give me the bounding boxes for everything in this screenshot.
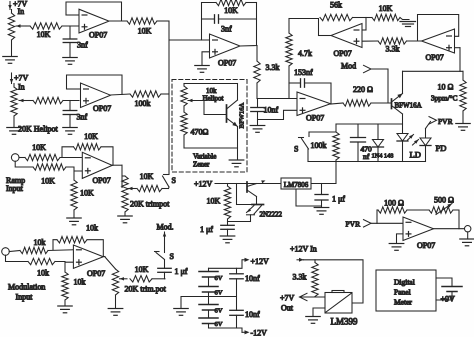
resistor 100 ohm (U9 feedback) [376, 210, 378, 223]
svg-text:OP07: OP07 [426, 53, 444, 62]
wire: U2 output [111, 94, 131, 95]
wire: minus input stage1 [66, 14, 79, 16]
switch S (bus to trimpot) [164, 174, 169, 176]
op-amp U9 OP07 (meter) [403, 217, 434, 241]
svg-text:3.3k: 3.3k [386, 45, 400, 54]
wire: input to resistors [19, 157, 25, 159]
svg-text:20K trim.pot: 20K trim.pot [125, 285, 167, 294]
wire: U9 output to terminal [434, 228, 465, 230]
wire: Q2 emitter up to rail [402, 71, 404, 93]
node: Modulation Input terminal [2, 248, 10, 256]
svg-text:Zener: Zener [193, 161, 210, 169]
wire: +12V to LM399 [304, 260, 364, 303]
svg-text:10k: 10k [34, 238, 46, 247]
svg-text:10K: 10K [80, 189, 94, 198]
resistor 10 ohm 3ppm/C [462, 71, 464, 80]
op-amp U4 OP07 [297, 92, 331, 116]
svg-text:Digital: Digital [394, 278, 415, 287]
trimmer 500 ohm (U9 feedback) [407, 209, 429, 211]
svg-text:10 Ω: 10 Ω [438, 83, 454, 92]
wire: feedback verticals U4 [288, 83, 290, 99]
svg-text:10K: 10K [37, 30, 51, 39]
wire: U4 output [331, 103, 344, 104]
ground (zener box) [229, 159, 244, 161]
svg-text:10K: 10K [379, 4, 393, 13]
op-amp U7 OP07 (ramp) [82, 152, 112, 178]
node: +7V In (stage2) [11, 73, 13, 84]
diode 1N4148 [377, 124, 379, 140]
svg-text:470Ω: 470Ω [191, 128, 209, 137]
svg-text:10K: 10K [41, 177, 55, 186]
trimpot 20K (ramp) [122, 176, 128, 212]
resistor 3.3k (U5 plus input) [362, 40, 378, 42]
resistor 220 ohm [343, 100, 371, 106]
svg-text:Input: Input [16, 293, 34, 302]
potentiometer 10k Helipot (in box) [183, 84, 185, 87]
wire: U5 output to feedback node [319, 35, 332, 37]
svg-text:100 Ω: 100 Ω [384, 199, 404, 208]
laser diode LD [402, 124, 404, 134]
resistor 100k (stage2 output) [130, 91, 161, 97]
svg-text:S: S [172, 176, 176, 185]
capacitor 1uf (mod, series) [164, 272, 166, 279]
wire: LM399 ground pin [313, 308, 325, 316]
op-amp U8 OP07 (modulation) [73, 245, 103, 268]
resistor 10K (ramp trim) [137, 185, 162, 191]
svg-text:153nf: 153nf [294, 68, 313, 77]
ground (1uf) [220, 235, 235, 237]
wire: Q1 collector up [237, 84, 239, 101]
svg-text:BFW16A: BFW16A [395, 102, 422, 110]
ground (10 ohm) [456, 123, 470, 125]
svg-text:Input: Input [6, 184, 24, 193]
svg-text:PD: PD [436, 143, 447, 153]
battery stack 4x6V [208, 268, 210, 271]
wire: battery bottom to -12V [209, 328, 243, 332]
ground (10nf) [250, 125, 265, 127]
svg-text:LM7806: LM7806 [284, 181, 309, 189]
svg-text:10k: 10k [37, 269, 49, 278]
svg-text:10k: 10k [86, 224, 98, 233]
svg-text:+9V: +9V [441, 295, 456, 304]
svg-text:10nf: 10nf [245, 274, 260, 283]
svg-text:Helipot: Helipot [203, 95, 224, 103]
wire: to bus [161, 93, 169, 95]
wire: top diode bus [336, 123, 403, 125]
battery +9V [436, 278, 452, 287]
dashed box: Variable Zener [172, 80, 247, 173]
svg-text:1 μf: 1 μf [200, 225, 213, 234]
svg-text:6V: 6V [215, 308, 223, 315]
ground (LM7806) [314, 207, 329, 209]
svg-text:10k: 10k [74, 278, 86, 287]
wire: wiper to resistor stage2 [29, 100, 33, 102]
wire: switch to 10K [168, 187, 171, 189]
ground (U8 plus) [58, 305, 72, 307]
svg-text:3.3k: 3.3k [266, 63, 280, 72]
wire: bottom diode bus [308, 161, 426, 163]
svg-text:6V: 6V [215, 321, 223, 328]
svg-text:10K: 10K [224, 6, 238, 15]
svg-text:10K: 10K [135, 265, 149, 274]
wire: U9 plus to ground [397, 234, 404, 244]
wire: U3 plus to ground [202, 52, 210, 65]
svg-text:3nf: 3nf [77, 113, 88, 122]
svg-text:500 Ω: 500 Ω [434, 196, 454, 205]
resistor 10K (stage1 output) [127, 18, 157, 24]
svg-text:LD: LD [410, 150, 421, 160]
wire: bus to U3 minus [169, 39, 210, 41]
wire: zener box top rail [184, 83, 238, 85]
node: +7V Out [300, 293, 308, 300]
wire: to U9 minus [371, 222, 403, 224]
node: output terminal [465, 226, 471, 232]
switch S (100k shunt) [335, 124, 337, 132]
op-amp U3 OP07 [210, 34, 241, 58]
op-amp U6 OP07 (points left) [422, 29, 455, 53]
resistor 4.7k (vertical, from opamp A output) [288, 19, 290, 34]
wire: U6 feedback loop [418, 15, 459, 42]
resistor 10K (U7 plus to ground) [73, 171, 75, 180]
svg-text:OP07: OP07 [93, 176, 111, 185]
capacitor 3nf (U3 feedback) [202, 18, 215, 20]
svg-text:20K Helipot: 20K Helipot [18, 125, 59, 134]
svg-text:BFW16A: BFW16A [239, 102, 246, 128]
wire: main vertical bus [168, 21, 170, 175]
svg-text:6V: 6V [215, 290, 223, 297]
capacitor 10nf (minus rail) [230, 309, 243, 311]
wire: bus to Q4 base [236, 184, 238, 205]
trimpot 20K (mod) [112, 269, 118, 295]
wire: stage2 feedback loop [67, 75, 123, 95]
ground (U9 plus) [389, 243, 404, 245]
svg-text:10K: 10K [138, 27, 152, 36]
svg-text:LM399: LM399 [331, 317, 359, 327]
svg-text:+12V In: +12V In [290, 245, 317, 254]
resistor 10K (mod trim out) [130, 276, 152, 282]
wire: 56k to minus junction [353, 17, 367, 19]
resistor 10K (ramp in 2) [33, 164, 66, 170]
svg-text:3nf: 3nf [221, 25, 232, 34]
resistor 10k (U8 plus to ground) [64, 262, 66, 272]
resistor 10K (ramp in 1) [25, 154, 60, 160]
wire: U3 output [240, 45, 257, 48]
ground (stage2 cap) [63, 127, 77, 129]
svg-text:PVR: PVR [438, 117, 453, 126]
svg-text:OP07: OP07 [87, 269, 105, 278]
ground (output terminal) [467, 232, 469, 239]
op-amp U5 OP07 (points left) [331, 24, 362, 48]
ground (LM399) [306, 316, 320, 318]
svg-text:Mod.: Mod. [157, 223, 174, 232]
ground (stage2 pot) [7, 127, 21, 129]
op-amp U2 OP07 [81, 83, 111, 108]
svg-text:6V: 6V [215, 275, 223, 282]
svg-text:PVR: PVR [346, 220, 361, 229]
ground (stage1 cap) [63, 57, 77, 59]
transistor Q3 2N2222 (darlington upper) [246, 182, 248, 192]
svg-text:1 μf: 1 μf [175, 267, 188, 276]
meter: Digital Panel Meter [376, 270, 436, 311]
resistor 10K (U7 feedback) [62, 147, 74, 158]
ground (ramp trimpot) [118, 215, 132, 217]
svg-text:OP07: OP07 [218, 59, 236, 68]
svg-text:56k: 56k [330, 1, 342, 10]
resistor 10K (darlington base) [227, 184, 229, 187]
svg-text:2N2222: 2N2222 [260, 211, 283, 219]
svg-text:1N4 148: 1N4 148 [372, 153, 394, 160]
svg-text:10K: 10K [140, 172, 154, 181]
capacitor 153nf (U4 feedback) [289, 82, 301, 84]
svg-text:Meter: Meter [394, 298, 412, 307]
svg-text:Out: Out [281, 304, 294, 313]
regulator LM7806 [281, 178, 311, 189]
svg-text:Variable: Variable [193, 153, 216, 161]
transistor Q1 BFW16A (in box) [226, 105, 228, 122]
svg-text:OP07: OP07 [417, 241, 435, 250]
svg-text:In: In [18, 7, 25, 16]
wire: emitter to cap [228, 221, 251, 223]
ground (battery midpoint) [174, 308, 188, 310]
svg-text:OP07: OP07 [334, 49, 352, 58]
resistor 470 ohm [183, 106, 185, 112]
svg-text:nf: nf [363, 152, 370, 161]
svg-text:Mod: Mod [341, 62, 356, 71]
resistor 10K (to ground, top right) [366, 17, 372, 19]
wire: mod lower branch [6, 255, 29, 261]
wire: wiper to Q1 base [204, 101, 227, 115]
wire: mod input top [9, 251, 20, 252]
wire: 470 to emitter node [184, 147, 238, 149]
svg-text:S: S [170, 252, 174, 261]
svg-text:+7V: +7V [280, 294, 295, 303]
potentiometer 20K Helipot (stage2) [13, 84, 15, 88]
wire: to bus [157, 20, 169, 22]
resistor 10K (stage1 input) [30, 23, 62, 29]
transistor Q2 BFW16A [391, 99, 393, 109]
node: Ramp Input terminal [11, 154, 19, 162]
ground (U7 plus) [67, 217, 81, 219]
wire: to Q2 base [371, 102, 391, 104]
wire: LM7806 output right and up [311, 162, 336, 184]
resistor 10k (mod in 1) [20, 247, 48, 253]
resistor 3.3k (vertical) [256, 46, 258, 62]
wire: Mod to base [371, 68, 388, 70]
voltage reference LM399 [325, 293, 352, 314]
capacitor 10nf (to ground) [257, 99, 259, 108]
wire: battery top to +12V [209, 260, 243, 269]
wire: Q2 collector down to diode bus [402, 114, 404, 124]
wire: LM7806 ground pin [296, 189, 322, 206]
svg-text:Panel: Panel [394, 288, 411, 297]
svg-text:10nf: 10nf [245, 310, 260, 319]
svg-text:1 μf: 1 μf [332, 195, 345, 204]
svg-text:+7V: +7V [14, 74, 29, 83]
resistor 56k (opamp A feedback) [320, 14, 353, 20]
wire: rail to 10ohm and opamp B [403, 70, 464, 72]
svg-text:+12V: +12V [194, 180, 213, 189]
capacitor 10nf (plus rail) [236, 268, 238, 274]
svg-text:20K trimpot: 20K trimpot [130, 200, 170, 209]
svg-text:OP07: OP07 [89, 31, 107, 40]
wire: U3 feedback verticals [201, 3, 203, 41]
transistor Q4 2N2222 (darlington lower) [252, 204, 264, 206]
wire: 4.7k top to opamp A output node [289, 18, 319, 20]
resistor 10K (U3 feedback) [202, 2, 217, 4]
svg-text:OP07: OP07 [306, 114, 324, 123]
svg-text:10K: 10K [84, 132, 98, 141]
svg-text:In: In [18, 83, 25, 92]
capacitor 3nf (stage2) [69, 101, 71, 111]
wire: up to Mod arrow [164, 243, 166, 253]
svg-text:220 Ω: 220 Ω [353, 85, 373, 94]
svg-text:3.3k: 3.3k [293, 273, 307, 282]
svg-text:OP07: OP07 [93, 104, 111, 113]
svg-text:10nf: 10nf [264, 106, 279, 115]
svg-text:4.7k: 4.7k [298, 49, 312, 58]
resistor 10k (mod in 2) [28, 258, 55, 264]
wire: U6 plus down to rail [455, 47, 461, 49]
wire: lower branch [15, 161, 33, 167]
svg-text:10K: 10K [207, 197, 221, 206]
svg-text:3ppm/°C: 3ppm/°C [431, 94, 458, 103]
wire: wiper to resistor [26, 25, 30, 27]
svg-text:+12V: +12V [251, 257, 270, 266]
svg-text:10K: 10K [32, 143, 46, 152]
svg-text:S: S [294, 145, 298, 154]
wire: to U4 minus [257, 98, 297, 100]
wire: to opamp [62, 25, 79, 27]
capacitor 1uf (darlington emitter) [227, 222, 229, 226]
wire: Q1 emitter down to ground [237, 127, 239, 149]
resistor 3.3k (LM399) [314, 260, 316, 263]
wire: stage1 feedback loop [66, 2, 122, 21]
potentiometer 20K Helipot (stage1) [11, 10, 13, 14]
resistor 10k (U8 feedback) [53, 240, 57, 250]
capacitor 1uf (LM7806 out) [321, 184, 323, 195]
resistor (stage2 input) [33, 97, 63, 103]
wire: U1 output [109, 20, 127, 22]
ground (after 10K, horizontal bars) [400, 18, 409, 20]
capacitor 470nf [357, 124, 359, 138]
wire: minus input stage2 [67, 88, 81, 90]
wire: 3.3k to U6 output [407, 40, 422, 42]
svg-text:-12V: -12V [251, 329, 268, 337]
wire: feedback to output [453, 210, 459, 229]
node: +7V In (top left) [9, 2, 11, 10]
svg-text:3nf: 3nf [77, 41, 88, 50]
wire: U7 output down [112, 164, 122, 166]
svg-text:100k: 100k [135, 99, 151, 108]
svg-text:100k: 100k [311, 141, 327, 150]
ground (stage1 pot) [3, 56, 17, 58]
wire: battery midpoint to ground [181, 297, 237, 309]
wire: U4 plus to ground node [258, 110, 298, 119]
svg-text:Modulation: Modulation [8, 283, 45, 292]
ground (mod trimpot) [108, 308, 123, 310]
capacitor 3nf (stage1) [69, 26, 71, 39]
resistor 100k (shunt) [333, 132, 339, 160]
switch S (mod) [156, 253, 165, 260]
ground (U3 plus) [195, 65, 209, 67]
op-amp U1 OP07 [79, 9, 109, 33]
wire: U8 output to trimpot [103, 256, 105, 258]
